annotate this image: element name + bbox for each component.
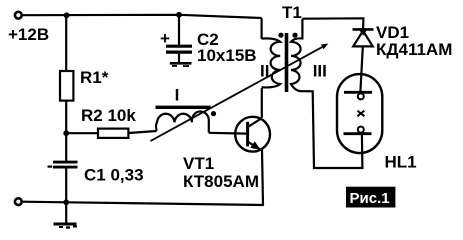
svg-text:+: + <box>160 29 170 48</box>
svg-text:HL1: HL1 <box>385 153 417 172</box>
svg-text:I: I <box>175 86 180 105</box>
svg-text:КТ805АМ: КТ805АМ <box>183 172 259 191</box>
svg-text:III: III <box>313 61 327 80</box>
svg-text:+12В: +12В <box>8 25 49 44</box>
svg-text:Т1: Т1 <box>282 3 302 22</box>
svg-text:КД411АМ: КД411АМ <box>376 40 452 59</box>
svg-text:Рис.1: Рис.1 <box>350 190 390 207</box>
svg-text:C1 0,33: C1 0,33 <box>84 166 144 185</box>
svg-text:10x15В: 10x15В <box>197 46 257 65</box>
svg-text:R1*: R1* <box>80 68 109 87</box>
svg-text:II: II <box>260 61 269 80</box>
svg-text:R2 10k: R2 10k <box>81 106 136 125</box>
svg-text:VT1: VT1 <box>183 154 214 173</box>
svg-text:VD1: VD1 <box>376 23 409 42</box>
